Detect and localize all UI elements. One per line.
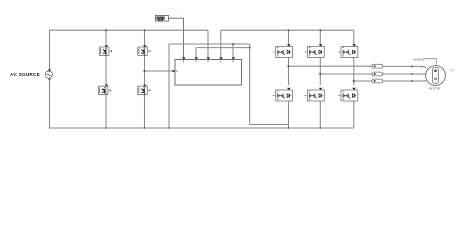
subsystem U1 (controller block) (175, 60, 242, 86)
wire: top rail left section (49, 29, 208, 31)
wire: left source rail lower (49, 78, 51, 128)
label: HB switch port ticks (106, 55, 145, 96)
switch S5 (inverter top W) (338, 44, 358, 57)
switch S2 (inverter bottom U) (273, 88, 293, 101)
wire: phase C line (354, 80, 372, 82)
svg-text:Tm: Tm (450, 69, 455, 73)
wire: outer gate loop horizontal (169, 43, 250, 45)
wire: inverter leg U upper (288, 30, 290, 44)
wire: inverter leg U lower (288, 101, 290, 128)
wire: pin2 drop (195, 48, 197, 58)
current measurement CM3 (372, 79, 383, 83)
node: rail junction dots (105, 29, 321, 129)
node: pin4 arrow (219, 57, 222, 60)
node: junction phase A (287, 65, 289, 67)
node: phase A arrow (412, 65, 414, 68)
wire: H-bridge mid tap to controller left pin (145, 70, 174, 72)
svg-text:MOTOR: MOTOR (429, 86, 441, 90)
wire: inverter leg W middle (353, 58, 355, 86)
wire: inner gate staple (196, 47, 250, 49)
wire: inverter leg W lower (353, 101, 355, 128)
wire: H-bridge leg A lower (105, 95, 107, 128)
node: left pin arrow (173, 70, 176, 73)
node: junction phase B (319, 73, 321, 75)
wire: phase C to motor (383, 80, 425, 82)
wire: inverter leg V lower (319, 101, 321, 128)
node: phase B arrow (412, 73, 414, 76)
switch Q1 (H-bridge top-left) (99, 45, 112, 55)
wire: pin5 branch (232, 44, 234, 57)
node: junction phase C (353, 80, 355, 82)
ac source V1 (45, 69, 52, 81)
switch S6 (inverter bottom W) (338, 88, 358, 101)
svg-text:AC SOURCE: AC SOURCE (10, 72, 40, 77)
switch Q2 (H-bridge top-right) (138, 45, 151, 55)
label: left pin mark (176, 70, 178, 72)
wire: left source rail upper (49, 30, 51, 71)
wire: pin4 drop from right top rail (220, 30, 222, 57)
current measurement CM1 (372, 64, 383, 68)
wire: phase B to motor (383, 73, 425, 75)
current measurement CM2 (372, 72, 383, 76)
wire: inverter leg V middle (319, 58, 321, 86)
svg-text:◄stator: ◄stator (413, 58, 425, 62)
wire: inverter leg V upper (319, 30, 321, 44)
wire: pin3 drop from left top rail (207, 30, 209, 57)
node: pin3 arrow (207, 57, 210, 60)
node: pin2 arrow (195, 57, 198, 60)
node: junction dot pin5 branch (232, 43, 234, 45)
wire: phase A to motor (383, 65, 425, 67)
motor M1 (induction machine) (422, 66, 446, 86)
node: pin5 arrow (232, 57, 235, 60)
wire: phase A line (289, 65, 373, 67)
wire: H-bridge leg A middle (105, 55, 107, 84)
node: junction dot at leg B mid (143, 70, 145, 72)
wire: outer gate loop (left drop to bottom rail) (168, 44, 170, 128)
switch Q3 (H-bridge bottom-left) (98, 85, 111, 95)
switch S1 (inverter top U) (273, 44, 293, 57)
wire: top rail right section (221, 29, 354, 31)
wire: bottom rail (49, 127, 354, 129)
switch Q4 (H-bridge bottom-right) (138, 85, 151, 95)
node: phase C arrow (412, 80, 414, 83)
wire: H-bridge leg B lower (144, 95, 146, 128)
wire: pulse generator to controller pin1 (169, 18, 184, 57)
wire: H-bridge leg B upper (144, 30, 146, 45)
switch S3 (inverter top V) (305, 44, 325, 57)
pulse generator block (156, 16, 169, 22)
wire: inverter leg U middle (288, 58, 290, 86)
svg-text:three phase inverter bridge: three phase inverter bridge (280, 23, 329, 28)
wire: outer gate loop right drop (250, 44, 289, 125)
wire: H-bridge leg A upper (105, 30, 107, 45)
node: pin1 arrow (182, 57, 185, 60)
node: junction dot inner staple right (249, 47, 251, 49)
wire: motor measurement output (423, 59, 436, 65)
wire: inverter leg W upper (353, 30, 355, 44)
switch S4 (inverter bottom V) (305, 88, 325, 101)
wire: H-bridge leg B middle (144, 55, 146, 84)
label: pin marks inside block (184, 61, 234, 63)
wire: phase B line (320, 73, 372, 75)
svg-text:pulse generator: pulse generator (153, 7, 181, 12)
